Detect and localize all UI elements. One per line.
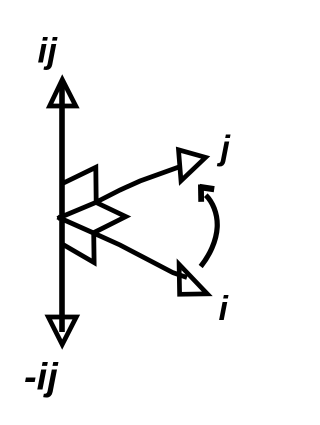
arrowhead of vector i (open triangle) [179, 264, 207, 294]
svg-text:-ij: -ij [24, 357, 59, 399]
curved rotation arrow (arc body) [201, 195, 218, 266]
svg-text:ij: ij [38, 32, 59, 71]
wire: vector i line [58, 217, 188, 278]
arrowhead up (+ij axis tip) [50, 80, 76, 107]
arrowhead down (-ij axis tip) [48, 317, 76, 345]
wire: vector j line [58, 166, 182, 218]
rhombus between j and i (right vertex edges) [94, 203, 126, 233]
parallelogram between axis and j (top + right edges) [63, 167, 97, 202]
svg-text:i: i [219, 290, 230, 328]
arrowhead of vector j (open triangle) [179, 150, 206, 181]
curved rotation arrow: head barb right [200, 187, 215, 189]
parallelogram between i and -axis (right + bottom edges) [63, 233, 95, 263]
wire: vertical axis shaft [59, 84, 65, 332]
curved rotation arrow: head barb down [198, 185, 204, 202]
